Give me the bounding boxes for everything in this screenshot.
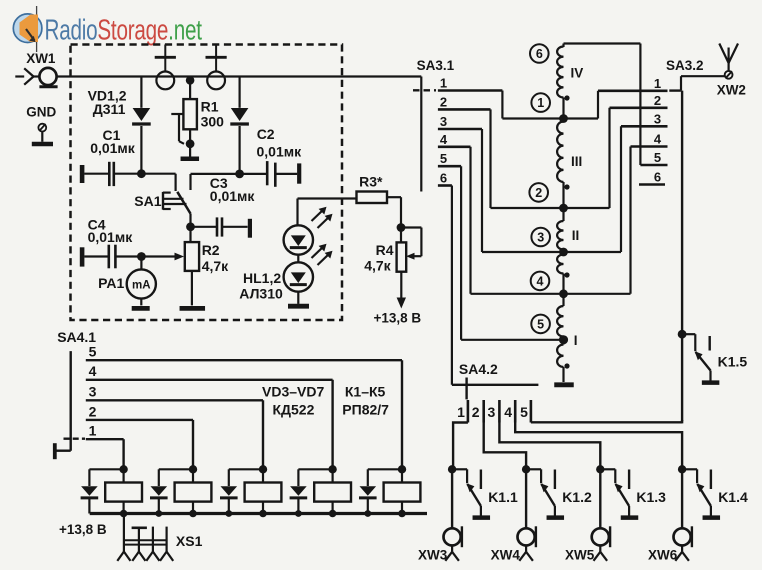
switch SA4.2 arm xyxy=(465,378,467,400)
node junction diode VD7 bottom xyxy=(364,510,371,517)
connector XW6 xyxy=(674,528,691,545)
node junction coil K4 bottom xyxy=(329,510,337,518)
wire to tap5 xyxy=(562,337,564,345)
polarity dot winding III xyxy=(564,184,569,189)
svg-text:0,01мк: 0,01мк xyxy=(88,229,134,245)
svg-text:КД522: КД522 xyxy=(273,402,315,418)
node junction tap 1 xyxy=(559,114,568,123)
diode VD4 xyxy=(151,486,168,496)
svg-text:SA3.1: SA3.1 xyxy=(417,58,455,73)
led HL1 arrows xyxy=(312,210,324,222)
relay coil K2 xyxy=(192,469,194,482)
polarity dot tap3-4 winding xyxy=(564,272,569,277)
wire SA4.2 pos2 to K1.2 xyxy=(484,423,526,470)
node junction tap 4 xyxy=(559,289,568,298)
diode VD5 xyxy=(221,486,238,496)
resistor R3 xyxy=(357,192,388,204)
switch SA1 xyxy=(162,192,164,210)
node junction K1.4 on XW line xyxy=(678,465,686,473)
wire XW5 vertical xyxy=(599,469,601,528)
wire SA4.2 pos3 to K1.3 xyxy=(499,423,600,470)
svg-text:3: 3 xyxy=(537,230,544,244)
wire R4 wiper xyxy=(401,226,421,228)
connector XS1 xyxy=(123,514,125,552)
circled 1 xyxy=(531,93,550,112)
wire tap5 horizontal xyxy=(461,339,563,341)
led HL2 xyxy=(284,262,313,291)
node junction K1.2 on XW line xyxy=(522,465,530,473)
wire arrow to R2 xyxy=(141,255,176,257)
wire HL1 to HL2 xyxy=(297,255,299,263)
wire SA3.1 pos3 to tap 3 xyxy=(481,129,483,252)
wire XW1 to SA3.1 main line xyxy=(57,75,422,77)
shield dashed box xyxy=(71,45,343,321)
svg-text:6: 6 xyxy=(654,170,661,185)
svg-text:3: 3 xyxy=(654,111,661,126)
switch SA3.1 position 3 bar xyxy=(438,128,482,131)
svg-text:3: 3 xyxy=(488,404,496,420)
capacitor C4 xyxy=(80,247,85,266)
switch SA3.1 position 4 bar xyxy=(438,146,471,149)
node junction relay K4 top xyxy=(328,465,336,473)
ground PA1 xyxy=(132,306,150,311)
svg-text:2: 2 xyxy=(654,93,661,108)
wire tap3 horizontal xyxy=(482,251,621,253)
wire SA3.1 pos5 to tap 5 xyxy=(460,166,462,340)
wire pos5 down to K5 xyxy=(401,360,403,469)
svg-text:K1.1: K1.1 xyxy=(488,489,518,505)
node junction SA1 R2 C3 xyxy=(186,222,195,231)
diode VD2 xyxy=(239,77,241,108)
svg-text:0,01мк: 0,01мк xyxy=(257,144,303,160)
svg-text:PA1: PA1 xyxy=(98,275,124,291)
switch SA4.1 position 1 line xyxy=(86,438,124,440)
node junction R1 bottom xyxy=(186,139,195,148)
relay contact K1.1 xyxy=(452,468,467,470)
svg-text:III: III xyxy=(571,154,582,169)
wire SA3.1 pos4 to tap 4 xyxy=(469,147,471,294)
switch SA3.1 position 5 bar xyxy=(438,165,461,168)
capacitor C3 xyxy=(191,226,217,228)
wire tap1 horizontal xyxy=(502,117,598,119)
wire SA3.1 pos6 to SA4.2 common xyxy=(451,186,453,385)
switch SA3.2 position 4 bar xyxy=(631,145,668,148)
wire LED top line xyxy=(298,197,357,199)
svg-text:R3*: R3* xyxy=(359,174,383,190)
diode VD3 xyxy=(81,486,98,496)
svg-text:XW6: XW6 xyxy=(648,548,678,563)
svg-text:R1: R1 xyxy=(201,99,219,115)
switch SA3.2 common xyxy=(680,76,682,90)
svg-text:2: 2 xyxy=(440,94,447,109)
transformer winding II xyxy=(557,221,563,250)
node junction C4 PA1 xyxy=(137,252,146,261)
svg-text:R4: R4 xyxy=(376,242,394,258)
diode VD7 xyxy=(360,486,377,496)
relay contact K1.4 xyxy=(682,468,697,470)
node junction relay K1 top xyxy=(119,465,127,473)
svg-text:АЛ310: АЛ310 xyxy=(239,286,283,302)
svg-text:5: 5 xyxy=(520,404,528,420)
svg-text:K1.5: K1.5 xyxy=(718,353,748,369)
node junction tap 5 xyxy=(559,335,568,344)
wire pos4 down to K4 xyxy=(331,380,333,470)
switch SA3.2 position 3 bar xyxy=(621,125,668,128)
diode VD6 xyxy=(290,486,307,496)
svg-text:6: 6 xyxy=(536,47,543,61)
node junction tap 2 xyxy=(559,204,568,213)
switch SA3.2 position 6 bar xyxy=(639,183,665,186)
circled 4 xyxy=(531,272,550,291)
capacitor C2 xyxy=(240,173,266,175)
wire to diode VD7 xyxy=(368,468,402,470)
node junction coil K3 bottom xyxy=(259,510,267,518)
connector XW1 xyxy=(15,75,24,77)
svg-text:XW3: XW3 xyxy=(418,548,448,563)
node junction relay K2 top xyxy=(189,465,197,473)
wire pos2 down to K2 xyxy=(192,420,194,469)
wire II to tap3 xyxy=(562,250,564,255)
logo text RadioStorage.net xyxy=(45,14,203,46)
svg-text:I: I xyxy=(574,333,578,348)
svg-text:K1.4: K1.4 xyxy=(718,489,748,505)
svg-text:+13,8 В: +13,8 В xyxy=(59,522,107,537)
svg-text:5: 5 xyxy=(654,150,661,165)
node junction coil K5 bottom xyxy=(398,510,406,518)
circled 5 xyxy=(531,315,550,334)
svg-text:XW5: XW5 xyxy=(565,548,595,563)
ground R2 xyxy=(180,306,206,311)
relay coil K3 xyxy=(262,469,264,482)
node junction coil K1 bottom xyxy=(120,510,128,518)
svg-text:XW2: XW2 xyxy=(717,83,746,98)
svg-text:IV: IV xyxy=(571,66,584,81)
wire SA3.2 to XW2 xyxy=(681,75,725,77)
svg-text:4: 4 xyxy=(537,274,544,288)
svg-text:VD3–VD7: VD3–VD7 xyxy=(262,384,324,400)
node junction relay K5 top xyxy=(398,465,406,473)
svg-text:5: 5 xyxy=(89,344,97,360)
relay contact K1.2 xyxy=(526,468,541,470)
svg-text:mA: mA xyxy=(132,280,151,292)
svg-text:XS1: XS1 xyxy=(176,533,203,549)
svg-text:SA4.2: SA4.2 xyxy=(459,361,498,377)
svg-text:1: 1 xyxy=(457,404,465,420)
switch SA3.1 position 1 bar xyxy=(438,89,503,92)
switch SA4.1 position 5 line xyxy=(86,359,402,361)
feed-through capacitor xyxy=(164,45,166,57)
connector XW4 xyxy=(518,528,535,545)
wire tap6 to SA3.2 pos5 xyxy=(639,44,641,166)
wire tap6 top line xyxy=(564,42,641,44)
svg-text:0,01мк: 0,01мк xyxy=(210,188,256,204)
node junction C2 VD2 xyxy=(235,170,244,179)
svg-text:K1.2: K1.2 xyxy=(562,489,592,505)
svg-text:HL1,2: HL1,2 xyxy=(243,270,281,286)
connector XW5 xyxy=(592,528,609,545)
wire XW2 common down xyxy=(681,91,683,422)
svg-text:XW4: XW4 xyxy=(491,548,521,563)
relay coil K1 xyxy=(122,469,124,482)
capacitor C1 xyxy=(80,165,85,183)
svg-text:2: 2 xyxy=(535,186,542,200)
svg-text:4,7к: 4,7к xyxy=(202,258,229,274)
node junction C1 VD1 xyxy=(137,169,146,178)
svg-text:GND: GND xyxy=(26,105,56,120)
svg-text:4: 4 xyxy=(440,132,448,147)
connector XW3 xyxy=(444,528,461,545)
wire SA3.1 pos2 to tap 2 xyxy=(489,109,491,208)
resistor R1 xyxy=(189,77,191,100)
transformer winding I xyxy=(557,345,563,368)
svg-text:C2: C2 xyxy=(257,126,275,142)
wire tap2 horizontal xyxy=(491,207,610,209)
wire node to SA1 left throw xyxy=(141,173,175,175)
svg-text:2: 2 xyxy=(89,403,97,419)
svg-text:XW1: XW1 xyxy=(26,51,56,66)
wire III to tap2 xyxy=(562,182,564,221)
svg-text:1: 1 xyxy=(440,76,447,91)
node junction K1.1 on XW line xyxy=(448,465,456,473)
switch SA4.1 arm xyxy=(64,438,86,440)
svg-text:K1.3: K1.3 xyxy=(636,489,666,505)
node junction diode VD5 bottom xyxy=(225,510,232,517)
svg-text:РП82/7: РП82/7 xyxy=(342,402,389,418)
wire tap1 to SA3.2 pos1 xyxy=(597,91,599,119)
circled 3 xyxy=(531,228,550,247)
svg-text:3: 3 xyxy=(89,384,97,400)
wire R1 tap xyxy=(171,113,183,115)
wire tap4 horizontal xyxy=(471,293,631,295)
node junction relay K3 top xyxy=(259,465,267,473)
relay coil K4 xyxy=(332,469,334,482)
wire to diode VD4 xyxy=(159,468,193,470)
wire tap3 to SA3.2 pos3 xyxy=(620,126,622,252)
ground HL2 xyxy=(297,292,299,304)
svg-text:300: 300 xyxy=(201,114,225,130)
node junction diode VD4 bottom xyxy=(155,510,162,517)
svg-text:6: 6 xyxy=(440,171,447,186)
svg-text:RadioStorage.net: RadioStorage.net xyxy=(45,14,203,46)
switch SA4.1 common xyxy=(69,351,71,451)
wire to diode VD6 xyxy=(298,468,332,470)
switch SA3.2 position 1 bar xyxy=(598,90,668,93)
svg-text:4,7к: 4,7к xyxy=(364,257,391,273)
antenna XW2 xyxy=(727,48,729,72)
resistor R2 xyxy=(189,227,191,242)
switch SA3.2 position 2 bar xyxy=(610,107,668,110)
svg-text:1: 1 xyxy=(89,423,97,439)
transformer winding IV xyxy=(562,44,564,48)
svg-text:SA3.2: SA3.2 xyxy=(666,58,704,73)
wire to tap4 xyxy=(562,274,564,307)
wire winding I to ground xyxy=(562,367,564,382)
diode VD1 xyxy=(140,77,142,108)
polarity dot winding IV xyxy=(564,95,569,100)
svg-text:+13,8 В: +13,8 В xyxy=(374,311,422,326)
node junction K1.5 xyxy=(678,330,687,339)
feed-through capacitor xyxy=(215,45,217,57)
logo icon transistor circle xyxy=(13,6,42,52)
ground transformer xyxy=(554,382,574,387)
circled 2 xyxy=(529,183,548,202)
wire XW6 vertical xyxy=(681,469,683,528)
svg-text:0,01мк: 0,01мк xyxy=(90,140,136,156)
switch SA3.1 common xyxy=(420,77,422,192)
relay coil K5 xyxy=(401,469,403,482)
svg-text:4: 4 xyxy=(504,404,512,420)
wire SA3.1 pos1 to tap 1 xyxy=(501,91,503,119)
node junction K1.3 on XW line xyxy=(596,465,604,473)
svg-text:К1–К5: К1–К5 xyxy=(345,384,386,400)
wire tap2 to SA3.2 pos2 xyxy=(608,108,610,208)
node junction tap 3 xyxy=(559,248,568,257)
switch SA4.1 position 3 line xyxy=(86,399,263,401)
svg-text:II: II xyxy=(572,228,580,243)
wire SA4.2 pos1 to K1.1 xyxy=(453,423,468,470)
svg-text:1: 1 xyxy=(654,76,661,91)
switch SA4.2 common xyxy=(452,384,539,386)
wire XW4 vertical xyxy=(525,469,527,528)
svg-text:1: 1 xyxy=(537,96,544,110)
switch SA3.1 arm xyxy=(413,89,436,91)
ground GND terminal xyxy=(38,124,46,132)
switch SA4.1 position 4 line xyxy=(86,379,333,381)
svg-text:2: 2 xyxy=(472,404,480,420)
meter PA1 xyxy=(140,257,142,270)
switch SA4.1 position 2 line xyxy=(86,419,193,421)
wire XW3 vertical xyxy=(451,469,453,528)
switch SA3.2 arm xyxy=(669,89,681,91)
svg-text:Д311: Д311 xyxy=(93,101,126,117)
node junction coil K2 bottom xyxy=(189,510,197,518)
wire tap4 to SA3.2 pos4 xyxy=(629,147,631,294)
led HL2 arrows xyxy=(312,247,324,259)
node junction R1 top on main wire xyxy=(186,76,195,85)
svg-text:SA1: SA1 xyxy=(134,193,161,209)
node junction R3 R4 xyxy=(397,223,406,232)
wire SA4.2 pos4 to K1.4 xyxy=(515,423,682,470)
svg-text:3: 3 xyxy=(440,114,447,129)
wire pos1 down to K1 xyxy=(122,439,124,469)
switch SA3.2 position 5 bar xyxy=(640,164,667,167)
wire +13.8V bus xyxy=(90,512,427,515)
relay contact K1.3 xyxy=(600,468,615,470)
wire pos3 down to K3 xyxy=(262,400,264,469)
transformer winding between tap3 tap4 xyxy=(557,255,563,274)
svg-text:4: 4 xyxy=(89,363,97,379)
polarity dot winding I xyxy=(564,363,569,368)
wire SA4.2 pos5 to XW2 common xyxy=(531,421,682,423)
svg-text:4: 4 xyxy=(654,132,662,147)
relay contact K1.5 xyxy=(682,333,695,335)
node junction diode VD6 bottom xyxy=(295,510,302,517)
transformer winding III xyxy=(557,122,563,183)
transformer winding between tap4 tap5 xyxy=(557,306,563,337)
ground R1 xyxy=(189,144,191,157)
svg-text:5: 5 xyxy=(537,317,544,331)
svg-text:R2: R2 xyxy=(202,242,220,258)
wire R4 to +13.8V arrow xyxy=(400,272,402,299)
resistor R4 xyxy=(400,228,402,243)
switch SA3.1 position 2 bar xyxy=(438,108,491,111)
wire SA1 right throw to C2 node xyxy=(189,174,191,190)
switch SA4.2 position bars xyxy=(467,400,470,423)
wire to diode VD5 xyxy=(229,468,263,470)
wire IV to tap1 xyxy=(562,98,564,122)
svg-text:5: 5 xyxy=(440,151,447,166)
led HL1 xyxy=(284,225,313,254)
circled 6 xyxy=(530,44,549,63)
wire to diode VD3 xyxy=(89,468,123,470)
switch SA3.1 position 6 bar xyxy=(438,184,452,187)
